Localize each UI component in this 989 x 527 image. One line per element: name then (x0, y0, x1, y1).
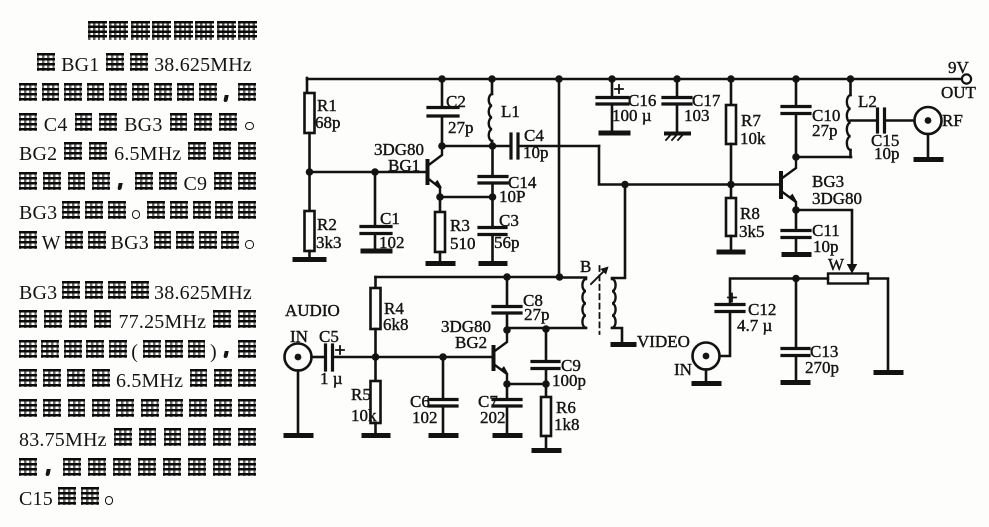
svg-text:R7: R7 (741, 111, 761, 130)
transistor BG1 3DG80 (374, 140, 442, 197)
ground: below AUDIO IN (286, 433, 311, 438)
wire: R4 drop (374, 277, 377, 288)
transformer B secondary (612, 185, 625, 344)
capacitor C14 (479, 146, 537, 206)
capacitor C2 (428, 79, 474, 146)
node: C9 bottom / R6 top (542, 380, 550, 388)
transistor BG2 3DG80 (441, 317, 507, 384)
svg-text:AUDIO: AUDIO (285, 301, 340, 320)
svg-text:VIDEO: VIDEO (637, 332, 690, 351)
svg-text:10p: 10p (874, 144, 900, 163)
capacitor C3 (479, 197, 520, 262)
resistor R2 (305, 172, 342, 258)
transistor BG3 3DG80 (781, 157, 862, 210)
capacitor C8 (493, 277, 550, 330)
node: rail drop x559 (555, 75, 563, 83)
node: C2 on rail (438, 75, 446, 83)
transformer B core (dashed) (599, 266, 601, 334)
wire: emitter node to C14/C3 node (440, 196, 493, 199)
svg-text:270p: 270p (805, 358, 839, 377)
svg-text:BG2: BG2 (455, 333, 487, 352)
ground: below R5 (364, 433, 388, 438)
wire: collector node to L1 node (442, 145, 493, 148)
svg-text:103: 103 (684, 106, 710, 125)
ground: below C13 (783, 380, 808, 385)
node: C6 top (439, 353, 447, 361)
svg-text:R8: R8 (740, 204, 760, 223)
ground: below C16 (601, 131, 628, 136)
svg-text:10p: 10p (813, 237, 839, 256)
node: C9 top (542, 325, 550, 333)
ground: right of W (876, 370, 901, 375)
capacitor C9 (532, 329, 586, 390)
svg-text:OUT: OUT (941, 83, 977, 102)
node: BG2 emitter (503, 380, 511, 388)
capacitor C7 (478, 384, 521, 434)
svg-text:202: 202 (480, 408, 506, 427)
node: C16 on rail (608, 75, 616, 83)
node: R7 on rail (727, 75, 735, 83)
node: L1 on rail (488, 75, 496, 83)
node: BG3 collector / L2 bottom (792, 153, 800, 161)
svg-text:C5: C5 (319, 327, 339, 346)
svg-text:1k8: 1k8 (554, 415, 580, 434)
capacitor C13 (782, 279, 839, 382)
wire: video node left to C12 (730, 279, 796, 304)
wire: audio node to BG2 base (376, 356, 493, 359)
capacitor C6 (410, 357, 457, 434)
node: BG2 collector (503, 326, 511, 334)
svg-text:4.7 µ: 4.7 µ (737, 316, 773, 335)
svg-text:10P: 10P (499, 187, 525, 206)
svg-text:IN: IN (290, 327, 308, 346)
svg-text:3k3: 3k3 (316, 233, 342, 252)
node: C17 on rail (673, 75, 681, 83)
resistor R7 (726, 79, 766, 184)
node: secondary top riser (621, 181, 629, 189)
capacitor C10 (782, 79, 840, 157)
connector RF out (915, 107, 963, 158)
svg-text:R5: R5 (351, 385, 371, 404)
capacitor C4 (493, 126, 599, 162)
svg-text:RF: RF (942, 111, 963, 130)
wire: emitter to W wiper (796, 210, 852, 264)
ground: below VIDEO IN (694, 381, 719, 386)
capacitor C17 (663, 79, 721, 132)
ground: below C3 (481, 261, 505, 266)
ground: below R8 (719, 250, 743, 255)
svg-text:BG1: BG1 (388, 156, 420, 175)
ground: transformer secondary (613, 342, 634, 347)
node: R4/R5 audio node (372, 353, 380, 361)
connector AUDIO IN (285, 301, 340, 434)
resistor R8 (726, 185, 765, 251)
svg-text:68p: 68p (315, 113, 341, 132)
node: C14 bottom / C3 top (489, 193, 497, 201)
capacitor C12 (electrolytic, +) (716, 294, 776, 357)
capacitor C1 (361, 172, 405, 252)
ground: below R3 (428, 261, 453, 266)
resistor R1 (305, 93, 341, 133)
svg-text:27p: 27p (812, 121, 838, 140)
wire: collector node to L2 bottom (796, 156, 851, 159)
svg-text:100 µ: 100 µ (612, 106, 652, 125)
capacitor C16 (electrolytic, +) (597, 79, 656, 131)
ground: below C17 (hatched) (666, 134, 689, 141)
node: C8 top on lower rail (503, 273, 511, 281)
wire: BG3 base wire (599, 146, 779, 185)
ground: below RF (916, 157, 941, 162)
node: L1 bottom / C4 / C14 (489, 142, 497, 150)
ground: below C7 (495, 433, 520, 438)
svg-text:27p: 27p (524, 305, 550, 324)
resistor R4 (371, 288, 409, 357)
resistor R5 (351, 357, 381, 434)
capacitor C5 (electrolytic, +) (312, 327, 376, 388)
svg-text:C2: C2 (446, 92, 466, 111)
wire: lower supply rail y=277 (376, 276, 561, 279)
svg-text:L2: L2 (858, 92, 877, 111)
svg-text:W: W (828, 255, 845, 274)
ground: below C11 (784, 252, 809, 257)
svg-text:10k: 10k (351, 406, 377, 425)
potentiometer W (828, 255, 868, 284)
transformer B primary (507, 257, 591, 328)
terminal 9V OUT (941, 58, 977, 102)
wire: L2 tap to C15 (851, 119, 877, 122)
wire: W right to ground drop (868, 279, 888, 372)
inductor L2 (847, 79, 877, 157)
wire: rail down to lower rail (558, 79, 561, 277)
wire: W left to video node (796, 277, 828, 280)
wire: R1 branch from rail (306, 78, 309, 93)
inductor L1 (489, 79, 520, 146)
capacitor C15 (871, 109, 914, 163)
wire: top supply rail (307, 78, 963, 81)
svg-text:C1: C1 (380, 209, 400, 228)
node: C1 top (371, 168, 379, 176)
node: C13 / video coupling (792, 275, 800, 283)
svg-text:510: 510 (450, 234, 476, 253)
svg-text:3k5: 3k5 (739, 222, 765, 241)
node: R1/R2/C1/BG1-base (306, 168, 314, 176)
ground: below R2 (295, 257, 324, 262)
ground: below C1 (363, 249, 390, 254)
svg-text:10k: 10k (740, 129, 766, 148)
ground: below R6 (534, 448, 559, 453)
svg-text:100p: 100p (552, 371, 586, 390)
node: C10 on rail (792, 75, 800, 83)
svg-text:R2: R2 (317, 215, 337, 234)
svg-text:R3: R3 (450, 216, 470, 235)
resistor R3 (435, 197, 476, 262)
svg-text:56p: 56p (494, 233, 520, 252)
svg-text:10p: 10p (523, 143, 549, 162)
svg-text:IN: IN (674, 360, 692, 379)
connector VIDEO IN (637, 332, 720, 382)
wire: base wire BG1 (310, 171, 427, 174)
svg-text:3DG80: 3DG80 (812, 189, 862, 208)
svg-text:1 µ: 1 µ (320, 369, 343, 388)
node: R7/R8 divider (727, 181, 735, 189)
capacitor C11 (782, 210, 840, 256)
svg-text:102: 102 (412, 408, 438, 427)
node: BG1 emitter (436, 193, 444, 201)
wire: R1 to node (308, 133, 311, 172)
node: BG3 emitter (792, 206, 800, 214)
node: L2 on rail (847, 75, 855, 83)
svg-text:6k8: 6k8 (383, 315, 409, 334)
svg-text:L1: L1 (501, 102, 520, 121)
svg-text:C3: C3 (499, 211, 519, 230)
LEFT TEXT COLUMN (0, 0, 989, 1)
svg-text:27p: 27p (448, 118, 474, 137)
svg-text:9V: 9V (948, 58, 970, 77)
transformer B tuning arrow (591, 267, 608, 284)
resistor R6 (541, 384, 580, 449)
ground: below C6 (431, 433, 456, 438)
node: lower rail x559 (556, 273, 564, 281)
wire: emitter to R6 (507, 383, 546, 386)
node: BG1 collector (438, 142, 446, 150)
svg-text:B: B (580, 257, 591, 276)
